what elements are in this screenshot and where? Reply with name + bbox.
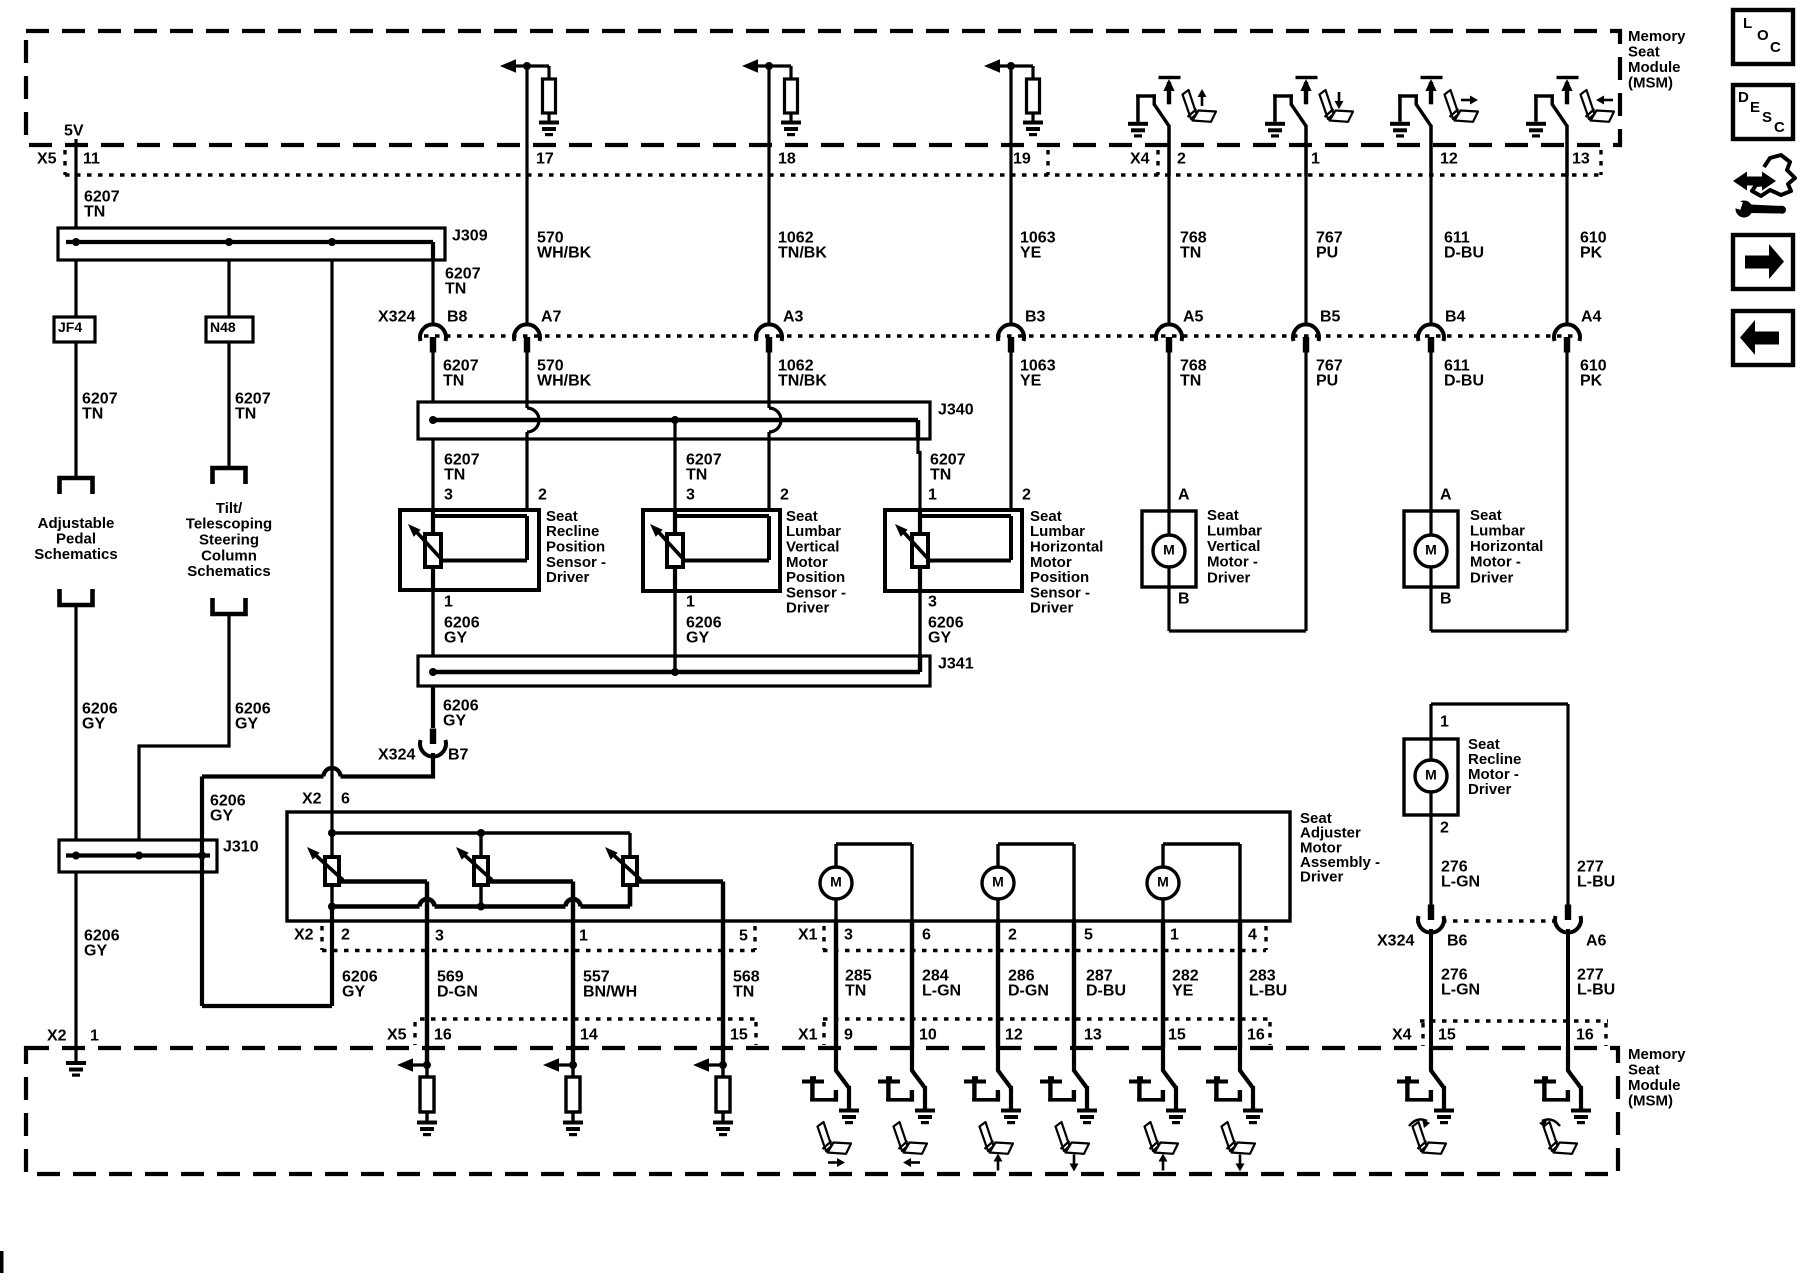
svg-text:J310: J310 <box>223 839 259 856</box>
svg-text:L: L <box>1743 15 1752 32</box>
svg-text:(MSM): (MSM) <box>1628 75 1673 92</box>
svg-text:M: M <box>1425 767 1437 783</box>
ground <box>417 1121 437 1137</box>
connector row dotted line <box>65 173 1601 176</box>
svg-text:Column: Column <box>201 547 257 564</box>
wires 16/14/15 into MSM <box>425 1019 429 1065</box>
svg-text:A: A <box>1178 487 1190 504</box>
icon box arrow left <box>1733 311 1793 365</box>
MSM internal sense arrow <box>703 1063 723 1066</box>
seat icon recline back <box>1544 1122 1578 1154</box>
svg-text:Module: Module <box>1628 59 1681 76</box>
sensor box: Seat Lumbar Vertical Motor Position Sensor - Driver <box>643 510 780 591</box>
MSM switch to ground (motor drive) <box>834 1048 838 1072</box>
junction dot J310 main <box>72 852 80 860</box>
svg-text:S: S <box>1762 109 1772 126</box>
svg-text:GY: GY <box>443 712 466 729</box>
svg-text:C: C <box>1774 119 1785 136</box>
MSM switch to ground (motor drive) <box>996 1048 1000 1072</box>
splice pack J310 <box>59 840 217 872</box>
svg-text:J340: J340 <box>938 402 974 419</box>
svg-text:X1: X1 <box>798 1027 818 1044</box>
wire sensor2 pin1 to J341 <box>673 591 676 672</box>
X324 B6/A6 dotted line <box>1442 919 1557 922</box>
svg-text:L-GN: L-GN <box>922 982 961 999</box>
wire 767 PU run to X324 B5 <box>1304 175 1307 326</box>
wire 1063 YE run to X324 B3 <box>1009 175 1012 326</box>
svg-text:Lumbar: Lumbar <box>1207 523 1262 540</box>
svg-text:B5: B5 <box>1320 309 1341 326</box>
motor wiring to pins <box>834 844 837 867</box>
svg-text:Driver: Driver <box>1468 781 1512 798</box>
svg-text:GY: GY <box>84 942 107 959</box>
svg-text:L-GN: L-GN <box>1441 981 1480 998</box>
connector X324 pin A4 <box>1554 324 1580 341</box>
MSM internal pull-up at pin 18: arrow <box>752 64 758 67</box>
connector X4 lower row labels <box>1420 1019 1608 1022</box>
connector X324 pin B4 <box>1418 324 1444 341</box>
wire 6207 TN J340 into sensor1 pin 3 <box>431 439 434 512</box>
svg-text:TN: TN <box>443 372 464 389</box>
svg-text:Schematics: Schematics <box>187 563 270 580</box>
MSM switch to ground (motor drive) <box>1161 1048 1165 1072</box>
svg-text:PU: PU <box>1316 244 1338 261</box>
icon box LOC <box>1733 10 1793 64</box>
junction dot J309 branch N48 <box>225 238 233 246</box>
MSM bottom dashed box <box>26 1048 1618 1174</box>
svg-text:TN: TN <box>445 280 466 297</box>
wiper line <box>930 559 1011 563</box>
svg-text:18: 18 <box>778 151 796 168</box>
svg-text:Seat: Seat <box>1207 507 1239 524</box>
ground <box>781 121 801 137</box>
junction dot top bus pot2 <box>477 829 485 837</box>
wire 1062 hop over J340 bus <box>769 408 781 432</box>
svg-text:Vertical: Vertical <box>1207 538 1260 555</box>
svg-text:TN: TN <box>1180 372 1201 389</box>
connector X324 pin B7 <box>430 729 436 745</box>
svg-text:X324: X324 <box>378 747 415 764</box>
wire pin 17 down to module edge <box>525 66 528 175</box>
svg-text:A: A <box>1440 487 1452 504</box>
svg-text:16: 16 <box>1576 1027 1594 1044</box>
MSM switch to ground at X4 pin (column 1306) <box>1265 122 1285 138</box>
svg-text:2: 2 <box>1177 151 1186 168</box>
wire 6207 TN J340 into sensor2 pin 3 <box>673 420 676 512</box>
connector X324 pin B8 <box>420 324 446 341</box>
svg-text:3: 3 <box>686 487 695 504</box>
ground at X2-1 <box>66 1061 86 1077</box>
svg-text:D: D <box>1738 89 1749 106</box>
wire 6207 TN J309 to N48 <box>227 260 230 317</box>
junction dot top bus pot1 <box>328 829 336 837</box>
svg-text:1: 1 <box>686 594 695 611</box>
wire 570 hop over J340 bus <box>527 408 539 432</box>
svg-text:15: 15 <box>1438 1027 1456 1044</box>
svg-text:GY: GY <box>82 715 105 732</box>
svg-text:B: B <box>1440 591 1452 608</box>
svg-text:Driver: Driver <box>1207 569 1251 586</box>
svg-text:X2: X2 <box>294 927 314 944</box>
off-page bracket <box>213 598 246 614</box>
svg-text:Driver: Driver <box>1300 869 1344 886</box>
resistor (MSM internal) <box>571 1065 574 1077</box>
junction dot J310 ground loop <box>198 852 206 860</box>
svg-text:TN: TN <box>686 466 707 483</box>
svg-text:Adjustable: Adjustable <box>38 515 115 532</box>
svg-text:2: 2 <box>1008 927 1017 944</box>
potentiometer element <box>912 534 928 567</box>
junction dot pin 17 <box>523 62 531 70</box>
seat adjuster motor M <box>820 867 852 899</box>
MSM switch to ground (motor drive) <box>1072 1048 1076 1072</box>
assembly ground bottom bus <box>332 904 420 909</box>
svg-text:5: 5 <box>1084 927 1093 944</box>
wire 5V to X5-11 <box>74 139 77 228</box>
wire B3 down to sensor 3 pin 2 <box>1009 352 1012 512</box>
connector X324 pin B6 <box>1428 905 1434 921</box>
svg-text:Horizontal: Horizontal <box>1470 538 1543 555</box>
svg-text:Memory: Memory <box>1628 1046 1686 1063</box>
svg-text:Memory: Memory <box>1628 28 1686 45</box>
svg-text:GY: GY <box>210 807 233 824</box>
svg-text:5: 5 <box>739 928 748 945</box>
wire B8 down to J340 <box>431 352 434 402</box>
connector X324 pin B3 <box>998 324 1024 341</box>
svg-text:Seat: Seat <box>1628 44 1660 61</box>
wire 6206 GY J310 to X2-1 ground <box>74 872 77 1061</box>
junction dot bottom bus pot2 <box>477 903 485 911</box>
wires X2 3/1/5 down to X5 row <box>425 921 429 1019</box>
motor: Seat Recline Motor - Driver <box>1404 739 1458 815</box>
svg-text:WH/BK: WH/BK <box>537 244 592 261</box>
seat icon recline fwd <box>1413 1122 1447 1154</box>
svg-text:C: C <box>1770 39 1781 56</box>
svg-text:TN: TN <box>235 405 256 422</box>
off-page bracket <box>213 468 246 484</box>
wire 6206 GY J341 to X324 B7 <box>431 686 435 728</box>
svg-text:GY: GY <box>235 715 258 732</box>
svg-text:Schematics: Schematics <box>34 546 117 563</box>
svg-text:JF4: JF4 <box>58 319 82 335</box>
ground <box>539 121 559 137</box>
seat icon <box>1320 90 1354 122</box>
svg-text:O: O <box>1757 27 1769 44</box>
junction dot J340 sensor2 branch <box>671 416 679 424</box>
svg-text:14: 14 <box>580 1027 598 1044</box>
page mark bottom-left <box>0 1251 4 1273</box>
MSM internal sense arrow <box>407 1063 427 1066</box>
splice pack J340 <box>418 402 930 439</box>
svg-text:Motor -: Motor - <box>1470 554 1521 571</box>
svg-text:GY: GY <box>686 629 709 646</box>
svg-text:A7: A7 <box>541 309 562 326</box>
svg-text:B: B <box>1178 591 1190 608</box>
junction dot J309 branch X2-6 <box>328 238 336 246</box>
wiper line <box>685 559 769 563</box>
wires to X4 15/16 <box>1429 929 1433 1048</box>
pot3 wiper to X2 pin 5 <box>637 879 723 883</box>
resistor (MSM internal, pin 18) <box>789 66 792 79</box>
MSM switch to ground at X4 pin (column 1169) <box>1128 122 1148 138</box>
wire 1062 TN/BK run to X324 A3 <box>767 175 770 326</box>
MSM switch to ground at X4 pin (column 1567) <box>1526 122 1546 138</box>
svg-text:1: 1 <box>1170 927 1179 944</box>
junction dot <box>423 1061 431 1069</box>
svg-text:11: 11 <box>83 151 100 168</box>
svg-text:5V: 5V <box>64 123 84 140</box>
svg-text:TN/BK: TN/BK <box>778 244 827 261</box>
svg-text:1: 1 <box>1440 714 1449 731</box>
svg-text:TN: TN <box>845 982 866 999</box>
junction dot pin 18 <box>765 62 773 70</box>
seat icon <box>1445 90 1479 122</box>
svg-text:1: 1 <box>1311 151 1320 168</box>
resistor (MSM internal, pin 17) <box>547 66 550 79</box>
svg-text:B7: B7 <box>448 747 469 764</box>
svg-text:6: 6 <box>341 791 350 808</box>
assembly position pot 1 <box>325 857 339 885</box>
svg-text:X4: X4 <box>1130 151 1150 168</box>
svg-text:19: 19 <box>1013 151 1031 168</box>
Seat Adjuster Motor Assembly box <box>287 812 1290 921</box>
svg-text:Pedal: Pedal <box>56 531 96 548</box>
svg-text:M: M <box>1425 542 1437 558</box>
svg-text:J341: J341 <box>938 656 974 673</box>
seat icon <box>894 1122 928 1154</box>
wire pot1 bottom to X2 pin 2 <box>330 907 334 922</box>
svg-text:BN/WH: BN/WH <box>583 983 637 1000</box>
inline connector X324 row dotted line <box>424 334 1578 337</box>
svg-text:N48: N48 <box>210 319 236 335</box>
wires X1 pins down to X1 row <box>834 921 838 1048</box>
svg-text:GY: GY <box>342 983 365 1000</box>
svg-text:Driver: Driver <box>1470 569 1514 586</box>
assembly 5V top bus <box>332 831 630 834</box>
pot2 wiper to X2 pin 1 <box>488 879 573 883</box>
svg-text:E: E <box>1750 99 1760 116</box>
svg-text:X4: X4 <box>1392 1027 1412 1044</box>
wire 611 D-BU run to X324 B4 <box>1429 175 1432 326</box>
svg-text:10: 10 <box>919 1027 937 1044</box>
icon box DESC <box>1733 85 1793 139</box>
svg-text:1: 1 <box>579 928 588 945</box>
svg-text:YE: YE <box>1020 372 1042 389</box>
motor wiring to pins <box>996 844 999 867</box>
wire 610 PK run to X324 A4 <box>1565 175 1568 326</box>
svg-text:15: 15 <box>730 1027 748 1044</box>
svg-text:4: 4 <box>1248 927 1257 944</box>
wire 6207 TN J309 to seat adjuster X2-6 <box>330 260 333 833</box>
svg-text:1: 1 <box>444 594 453 611</box>
svg-text:GY: GY <box>928 629 951 646</box>
connector JF4 box <box>54 317 95 342</box>
svg-text:YE: YE <box>1020 244 1042 261</box>
svg-text:TN: TN <box>444 466 465 483</box>
bus hop over wiper 1-wire <box>566 899 581 906</box>
connector X324 pin A3 <box>756 324 782 341</box>
svg-text:X5: X5 <box>37 151 57 168</box>
connector X2/X1 row dotted line <box>322 949 755 952</box>
svg-text:M: M <box>992 874 1004 890</box>
svg-text:1: 1 <box>928 487 937 504</box>
svg-text:M: M <box>1157 874 1169 890</box>
wire 6206 GY B7 to J310 (ground loop) <box>341 753 434 777</box>
svg-text:3: 3 <box>844 927 853 944</box>
svg-text:2: 2 <box>538 487 547 504</box>
svg-text:TN: TN <box>1180 244 1201 261</box>
svg-text:(MSM): (MSM) <box>1628 1093 1673 1110</box>
svg-text:2: 2 <box>1440 820 1449 837</box>
svg-text:PK: PK <box>1580 372 1603 389</box>
sensor box: Seat Recline Position Sensor - Driver <box>400 510 539 590</box>
svg-text:X324: X324 <box>1377 933 1414 950</box>
svg-text:X324: X324 <box>378 309 415 326</box>
svg-text:Module: Module <box>1628 1077 1681 1094</box>
svg-text:TN/BK: TN/BK <box>778 372 827 389</box>
sensor lower pin wire <box>431 567 435 590</box>
svg-text:D-GN: D-GN <box>1008 982 1049 999</box>
svg-text:PK: PK <box>1580 244 1603 261</box>
svg-text:D-BU: D-BU <box>1444 244 1484 261</box>
svg-text:D-GN: D-GN <box>437 983 478 1000</box>
svg-text:2: 2 <box>780 487 789 504</box>
wire pin 18 down to module edge <box>767 66 770 175</box>
icon box arrow right <box>1733 235 1793 289</box>
MSM internal pull-up at pin 17: arrow <box>510 64 516 67</box>
seat adjuster motor M <box>1147 867 1179 899</box>
svg-text:M: M <box>830 874 842 890</box>
resistor (MSM internal, pin 19) <box>1031 66 1034 79</box>
seat icon <box>1183 90 1217 122</box>
svg-text:B6: B6 <box>1447 933 1468 950</box>
svg-text:L-GN: L-GN <box>1441 873 1480 890</box>
MSM switch to ground (motor drive) <box>910 1048 914 1072</box>
svg-text:13: 13 <box>1084 1027 1102 1044</box>
svg-text:Lumbar: Lumbar <box>1470 523 1525 540</box>
motor wiring to pins <box>1161 844 1164 867</box>
svg-text:9: 9 <box>844 1027 853 1044</box>
wire N48 down <box>227 342 230 468</box>
junction dot J341 sensor2 <box>671 668 679 676</box>
svg-text:WH/BK: WH/BK <box>537 372 592 389</box>
wire JF4 leg to J310 <box>74 605 77 840</box>
junction dot bottom bus pot1 <box>328 903 336 911</box>
sensor lower pin wire <box>673 567 677 591</box>
MSM switch to ground (recline drive) 15 <box>1429 1048 1433 1072</box>
svg-text:3: 3 <box>435 928 444 945</box>
seat icon <box>1581 90 1615 122</box>
sensor box: Seat Lumbar Horizontal Motor Position Sensor - Driver <box>885 510 1022 591</box>
svg-text:L-BU: L-BU <box>1249 982 1287 999</box>
off-page bracket <box>60 589 93 605</box>
junction dot J340 at B8 wire <box>429 416 437 424</box>
svg-text:X1: X1 <box>798 927 818 944</box>
svg-text:Driver: Driver <box>546 569 590 586</box>
motor: Seat Lumbar Horizontal Motor - Driver <box>1404 511 1458 587</box>
svg-text:X5: X5 <box>387 1027 407 1044</box>
seat adjuster motor M <box>982 867 1014 899</box>
svg-text:D-BU: D-BU <box>1444 372 1484 389</box>
svg-text:3: 3 <box>928 594 937 611</box>
svg-text:B4: B4 <box>1445 309 1466 326</box>
wire 6207 TN J340 into sensor3 pin 1 <box>916 439 919 454</box>
svg-text:B3: B3 <box>1025 309 1046 326</box>
svg-text:Telescoping: Telescoping <box>186 516 272 533</box>
svg-text:12: 12 <box>1005 1027 1023 1044</box>
svg-text:B8: B8 <box>447 309 468 326</box>
svg-text:X2: X2 <box>302 791 322 808</box>
svg-text:Driver: Driver <box>1030 600 1074 617</box>
ground <box>713 1121 733 1137</box>
junction dot <box>569 1061 577 1069</box>
icon adjust hand and wrench <box>1745 155 1795 196</box>
MSM switch to ground at X4 pin (column 1431) <box>1390 122 1410 138</box>
MSM internal pull-up at pin 19: arrow <box>994 64 1000 67</box>
connector X5 row labels <box>420 1017 756 1020</box>
svg-text:2: 2 <box>341 927 350 944</box>
svg-text:3: 3 <box>444 487 453 504</box>
splice pack J341 <box>418 656 930 686</box>
wire A7 down to sensor 1 pin 2 <box>525 352 528 408</box>
off-page bracket <box>60 478 93 494</box>
seat icon <box>1222 1122 1256 1154</box>
svg-text:TN: TN <box>82 405 103 422</box>
svg-text:2: 2 <box>1022 487 1031 504</box>
splice pack J309 <box>58 228 445 260</box>
wire N48 leg jog to J310 <box>139 614 229 840</box>
resistor (MSM internal) <box>425 1065 428 1077</box>
svg-text:PU: PU <box>1316 372 1338 389</box>
junction dot J341 at B7 wire <box>429 668 437 676</box>
wire recline pin2 to B6 <box>1429 815 1432 905</box>
bus hop over wiper 3-wire <box>420 899 435 906</box>
wire pin 19 down to module edge <box>1009 66 1012 175</box>
connector X1 lower row labels <box>823 1017 1270 1020</box>
motor: Seat Lumbar Vertical Motor - Driver <box>1142 511 1196 587</box>
svg-text:16: 16 <box>434 1027 452 1044</box>
svg-text:A4: A4 <box>1581 309 1602 326</box>
svg-text:X2: X2 <box>47 1028 67 1045</box>
wire sensor1 pin1 to J341 <box>431 590 434 656</box>
potentiometer element <box>667 534 683 567</box>
wiper line <box>443 559 527 563</box>
svg-text:Driver: Driver <box>786 600 830 617</box>
svg-text:Tilt/: Tilt/ <box>216 500 243 517</box>
MSM internal sense arrow <box>553 1063 573 1066</box>
MSM switch to ground (motor drive) <box>1238 1048 1242 1072</box>
connector N48 box <box>206 317 253 342</box>
ground <box>1023 121 1043 137</box>
svg-text:Seat: Seat <box>1470 507 1502 524</box>
seat icon <box>1056 1122 1090 1154</box>
pot1 wiper to X2 pin 3 <box>340 879 427 883</box>
svg-text:12: 12 <box>1440 151 1458 168</box>
svg-text:Seat: Seat <box>1628 1062 1660 1079</box>
svg-text:TN: TN <box>930 466 951 483</box>
junction dot pin 19 <box>1007 62 1015 70</box>
junction dot J309 at 5V feed <box>72 238 80 246</box>
wire 570 WH/BK run to X324 A7 <box>525 175 528 326</box>
svg-text:16: 16 <box>1247 1027 1265 1044</box>
wire 768 TN run to X324 A5 <box>1167 175 1170 326</box>
ground <box>563 1121 583 1137</box>
seat icon <box>818 1122 852 1154</box>
svg-text:Motor -: Motor - <box>1207 554 1258 571</box>
junction dot J310 N48 leg <box>135 852 143 860</box>
connector X324 pin A6 <box>1565 905 1571 921</box>
sensor lower pin wire <box>918 567 922 591</box>
